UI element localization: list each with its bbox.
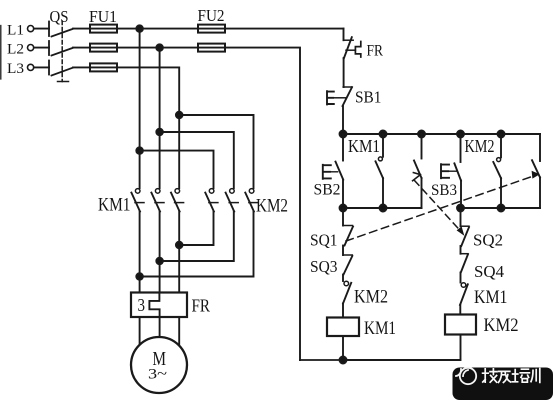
- svg-text:SB3: SB3: [431, 182, 457, 199]
- fuse FU1 element 2: [90, 44, 117, 52]
- node sub-bus b5: [498, 205, 505, 212]
- contactor KM1 NC interlock contact: [460, 283, 468, 315]
- node sub-bus b1: [340, 205, 347, 212]
- svg-text:SB2: SB2: [314, 182, 341, 199]
- svg-text:KM1: KM1: [348, 136, 380, 156]
- node L2 terminal: [7, 42, 34, 58]
- wire control bus: [343, 133, 540, 135]
- svg-text:KM2: KM2: [256, 196, 288, 217]
- wire right sub-bus: [461, 207, 541, 209]
- svg-text:KM1: KM1: [364, 318, 396, 339]
- switch SQ4 (NC limit): [461, 254, 469, 283]
- wire phase2 vertical: [159, 48, 161, 188]
- wire KM2 c3 merge: [140, 212, 254, 277]
- node tap phase3: [176, 112, 183, 119]
- wire KM1 coil to bottom bus: [342, 336, 344, 360]
- node bus b1: [340, 131, 347, 138]
- svg-text:KM1: KM1: [474, 287, 508, 308]
- node tap phase1: [136, 147, 143, 154]
- node L3 terminal: [7, 61, 34, 77]
- contactor KM2 main contact 3: [245, 189, 258, 212]
- svg-text:L1: L1: [7, 23, 24, 39]
- wire KM2 c2 merge: [160, 212, 234, 262]
- fuse FU2 element 1: [198, 25, 225, 33]
- contactor KM1 main contact 2: [151, 189, 164, 212]
- node bus b4: [457, 131, 464, 138]
- svg-text:KM2: KM2: [465, 136, 495, 156]
- node tap phase2: [156, 129, 163, 136]
- svg-text:QS: QS: [50, 7, 69, 26]
- contact SQ1-linked NO (b6): [532, 134, 540, 208]
- node sub-bus b2: [380, 205, 387, 212]
- svg-text:SQ2: SQ2: [473, 231, 503, 250]
- switch QS pole 3: [49, 61, 73, 76]
- svg-text:KM1: KM1: [98, 195, 131, 216]
- fuse FU2 element 2: [198, 44, 225, 52]
- svg-text:3: 3: [138, 295, 146, 315]
- wire KM2 c1 merge: [179, 212, 213, 246]
- node bottom bus KM1: [340, 357, 347, 364]
- svg-text:L2: L2: [7, 42, 24, 58]
- coil KM2: [445, 315, 476, 335]
- contactor KM1 aux NO contact: [376, 134, 384, 208]
- watermark text 技成培训: [483, 369, 540, 383]
- node junction phase1: [136, 25, 143, 32]
- contactor KM1 main contact 1: [131, 189, 144, 212]
- wire QS pole3 to FU1: [73, 66, 117, 68]
- wire control feed corner: [343, 29, 345, 41]
- svg-text:SQ3: SQ3: [310, 257, 338, 276]
- button SB2 (NO start fwd): [323, 134, 343, 208]
- svg-text:SQ1: SQ1: [310, 231, 338, 250]
- fuse FU1 element 1: [90, 25, 117, 33]
- switch SQ3 (NC limit): [343, 255, 352, 281]
- watermark badge: [453, 368, 553, 400]
- svg-text:FU1: FU1: [89, 7, 117, 26]
- contact FR (NC thermal): [344, 37, 361, 58]
- wire crossover phase3 to KM2: [179, 115, 253, 188]
- linkage dashed b3 to SQ2: [415, 181, 465, 236]
- wire QS pole2 to FU1: [73, 47, 198, 49]
- wire FR to SB1: [343, 58, 345, 87]
- node merge phase2: [156, 258, 163, 265]
- svg-text:KM2: KM2: [354, 287, 388, 308]
- wire phase1 vertical: [139, 29, 141, 188]
- contactor KM2 aux NO contact: [493, 134, 501, 208]
- wire L3 to QS: [34, 66, 49, 68]
- node sub-bus b4: [457, 205, 464, 212]
- wire KM1 c3 down: [178, 212, 180, 293]
- wire FU2 phase1 to control feed: [198, 28, 344, 30]
- svg-text:FR: FR: [367, 43, 384, 60]
- contactor KM2 main contact 1: [205, 189, 218, 212]
- contact SQ2-linked NO (b3): [413, 134, 422, 208]
- wire SB1 to bus: [342, 106, 344, 134]
- node merge phase3: [176, 242, 183, 249]
- wire KM1 c1 down: [139, 212, 141, 293]
- node merge phase1: [136, 273, 143, 280]
- wire left-edge stub: [0, 26, 2, 80]
- svg-text:SQ4: SQ4: [474, 262, 504, 281]
- fuse FU1 element 3: [90, 63, 117, 71]
- node L1 terminal: [7, 23, 34, 39]
- relay FR thermal box: [131, 293, 187, 318]
- svg-text:KM2: KM2: [484, 315, 519, 336]
- wire FR to motor 2: [159, 317, 161, 337]
- switch SQ2 (NC limit): [461, 208, 470, 254]
- wire left sub-bus: [343, 207, 422, 209]
- node bus b2: [380, 131, 387, 138]
- contactor KM2 NC interlock contact: [343, 281, 351, 317]
- node bus b5: [498, 131, 505, 138]
- switch QS pole 1: [49, 22, 73, 37]
- contactor KM2 main contact 2: [226, 189, 239, 212]
- switch QS pole 2: [49, 41, 73, 56]
- wire crossover phase1 to KM2: [140, 151, 214, 188]
- button SB1 (NC stop): [327, 87, 352, 106]
- wire crossover phase2 to KM2: [160, 132, 234, 188]
- motor M circle: [131, 337, 187, 393]
- switch SQ1 (NC limit): [343, 208, 353, 255]
- wire KM2 coil to bottom bus: [343, 335, 461, 361]
- relay FR heater element: [149, 293, 159, 318]
- wire KM1 c2 down: [159, 212, 161, 293]
- svg-text:SB1: SB1: [355, 88, 382, 107]
- wire FU2 phase2 to left return: [198, 48, 300, 360]
- contactor KM1 main contact 3: [171, 189, 184, 212]
- wire L1 to QS: [34, 28, 49, 30]
- switch QS linkage (dashed): [58, 21, 69, 82]
- wire FU1 out phase3 to corner: [117, 67, 179, 188]
- svg-text:FR: FR: [192, 296, 211, 316]
- button SB3 (NO start rev): [441, 134, 461, 208]
- wire L2 to QS: [34, 47, 49, 49]
- node junction phase2: [156, 44, 163, 51]
- watermark logo: [456, 368, 476, 384]
- linkage dashed SQ1 to b6: [346, 171, 540, 241]
- wire QS pole1 to FU1: [73, 28, 198, 30]
- coil KM1: [327, 318, 359, 337]
- wire FR to motor 3: [178, 317, 180, 346]
- wire bottom bus: [300, 359, 343, 361]
- node bus b3: [418, 131, 425, 138]
- svg-text:3~: 3~: [148, 367, 167, 383]
- svg-text:L3: L3: [7, 61, 24, 77]
- svg-text:FU2: FU2: [198, 6, 225, 25]
- wire FR to motor 1: [139, 317, 141, 345]
